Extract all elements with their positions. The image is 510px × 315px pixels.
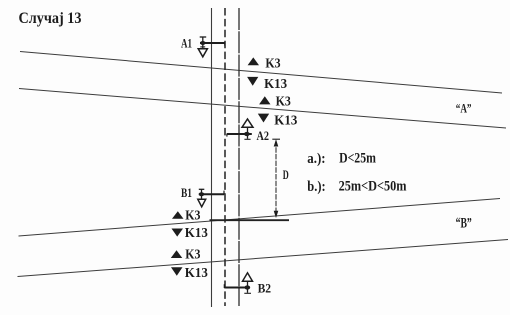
dimension D line: [272, 139, 280, 218]
signal A1: [198, 37, 225, 57]
svg-text:K13: K13: [274, 114, 297, 129]
svg-text:Случај 13: Случај 13: [19, 10, 82, 27]
svg-text:25m<D<50m: 25m<D<50m: [339, 179, 407, 195]
signal B2: [224, 273, 252, 294]
svg-text:“B”: “B”: [456, 215, 472, 231]
svg-text:b.):: b.):: [307, 179, 325, 195]
svg-text:K13: K13: [264, 77, 287, 92]
svg-text:A2: A2: [257, 128, 270, 143]
marker K3 up-triangle (top group 1): [248, 57, 259, 65]
signal A2: [227, 119, 253, 139]
svg-text:K3: K3: [265, 57, 280, 72]
svg-text:K13: K13: [185, 266, 208, 281]
svg-text:B2: B2: [258, 281, 272, 296]
vertical line left (solid): [211, 8, 213, 307]
vertical line right (solid): [238, 8, 240, 306]
svg-text:“A”: “A”: [456, 101, 472, 115]
marker K13 down-triangle (top group 1): [247, 77, 258, 86]
track A lower line: [19, 89, 506, 129]
svg-text:K13: K13: [185, 226, 208, 241]
marker K3 up-triangle (bottom group 1): [172, 211, 184, 219]
svg-text:K3: K3: [185, 247, 200, 262]
svg-text:a.):: a.):: [307, 151, 325, 167]
svg-text:A1: A1: [181, 36, 192, 51]
svg-text:K3: K3: [276, 95, 291, 110]
svg-text:D<25m: D<25m: [339, 150, 376, 166]
horizontal reference segment at B: [210, 219, 290, 221]
svg-text:K3: K3: [185, 209, 200, 224]
marker K3 up-triangle (bottom group 2): [171, 250, 183, 258]
svg-text:B1: B1: [181, 185, 192, 200]
marker K13 down-triangle (top group 2): [258, 114, 269, 123]
signal B1: [198, 189, 224, 207]
svg-text:D: D: [283, 167, 289, 182]
marker K13 down-triangle (bottom group 1): [172, 229, 184, 237]
vertical line middle (dashed axis): [224, 8, 226, 306]
marker K13 down-triangle (bottom group 2): [171, 267, 183, 276]
marker K3 up-triangle (top group 2): [259, 96, 270, 104]
track B lower line: [18, 240, 509, 277]
track A upper line: [20, 52, 502, 94]
track B upper line: [19, 199, 501, 237]
